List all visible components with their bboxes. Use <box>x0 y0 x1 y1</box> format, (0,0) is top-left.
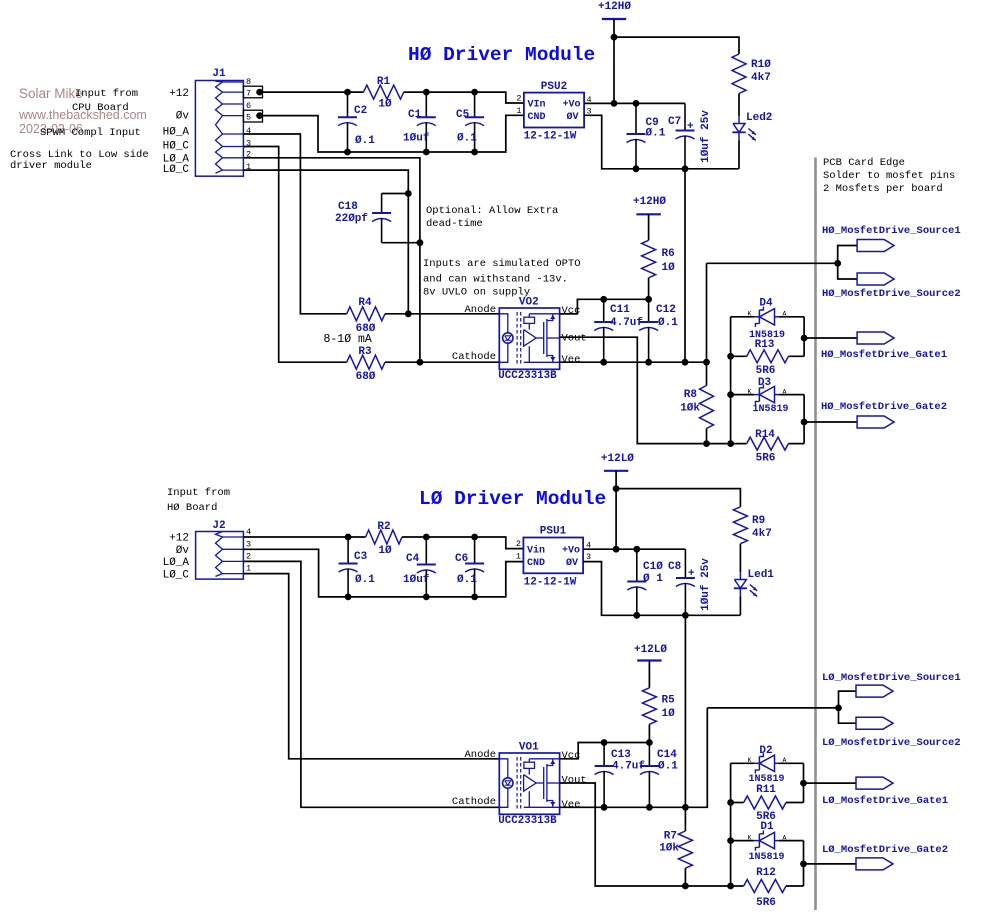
capacitor C5 <box>474 92 476 117</box>
junction C5 top <box>471 89 478 96</box>
wire +12L0 rail to R9 <box>616 489 740 507</box>
net L0_MosfetDrive_Gate1 <box>856 777 893 789</box>
junction C6 bottom <box>471 594 478 601</box>
svg-text:22Øpf: 22Øpf <box>335 213 368 225</box>
wire R5 to Vcc rail <box>648 724 650 742</box>
svg-text:C3: C3 <box>354 551 368 563</box>
wire right rail gate2 <box>803 395 805 444</box>
svg-text:VO2: VO2 <box>519 297 539 309</box>
svg-text:LØ_MosfetDrive_Gate1: LØ_MosfetDrive_Gate1 <box>822 795 948 807</box>
wire L0_A cross link from J1 pin2 <box>243 158 420 362</box>
svg-text:HØ Board: HØ Board <box>167 502 217 514</box>
svg-text:C12: C12 <box>656 304 676 316</box>
svg-text:R4: R4 <box>358 297 372 309</box>
op-amp/opto-driver VO1 UCC23313B <box>499 753 559 814</box>
resistor R12 <box>744 880 786 893</box>
svg-text:Anode: Anode <box>464 304 496 316</box>
svg-text:C8: C8 <box>668 561 682 573</box>
junction vee/C7 drop <box>682 359 689 366</box>
wire +12H0 rail to R10 <box>614 37 739 54</box>
wire R4 to opto anode <box>385 313 499 315</box>
diode D3 1N5819 <box>754 394 760 396</box>
wire right rail gate2 L0 <box>803 841 805 886</box>
capacitor C18 (dead-time) <box>382 193 409 195</box>
wire PSU2 +Vo row <box>584 102 685 104</box>
svg-text:ØV: ØV <box>566 111 578 123</box>
diode D1 1N5819 <box>754 840 760 842</box>
wire gate2 to card edge L0 <box>804 863 857 865</box>
capacitor C1 <box>425 92 427 117</box>
net H0_MosfetDrive_Gate1 <box>857 332 894 344</box>
PCB card edge line <box>814 158 817 911</box>
wire C7 bottom down to Vee rail <box>684 169 686 362</box>
svg-text:Solder to mosfet pins: Solder to mosfet pins <box>823 170 955 182</box>
wire +12H0 stem down to +Vo <box>613 37 615 103</box>
wire D1 row left stub <box>731 840 754 842</box>
net L0_MosfetDrive_Source1 <box>856 685 893 697</box>
svg-text:VIn: VIn <box>528 100 546 111</box>
svg-text:K: K <box>748 757 752 764</box>
svg-text:Ø.1: Ø.1 <box>646 128 666 140</box>
junction C3 bottom <box>345 594 352 601</box>
svg-text:4.7uf: 4.7uf <box>610 317 643 329</box>
junction +Vo at +12H0 stem <box>611 100 618 107</box>
svg-text:C6: C6 <box>455 553 468 565</box>
svg-text:1: 1 <box>516 106 521 116</box>
junction C14 bottom <box>646 804 653 811</box>
svg-text:1Ø: 1Ø <box>378 99 392 111</box>
junction C1 top <box>423 89 430 96</box>
svg-text:J1: J1 <box>212 68 226 80</box>
svg-text:C14: C14 <box>657 749 677 761</box>
wire gate network left rail <box>730 317 732 444</box>
wire +12L0 to R5 <box>648 661 650 688</box>
svg-text:HØ_MosfetDrive_Source2: HØ_MosfetDrive_Source2 <box>822 288 961 300</box>
wire C8 bottom down to Vee rail <box>684 615 686 808</box>
svg-text:LØ Driver Module: LØ Driver Module <box>419 488 606 510</box>
capacitor C4 <box>425 537 427 565</box>
wire PSU2 0V to output ground rail <box>584 115 739 169</box>
wire L0_C from J2 pin1 to opto anode <box>243 574 499 759</box>
junction gate2 <box>801 419 808 426</box>
wire H0_C from J1 pin3 to R3 <box>243 147 346 363</box>
resistor R1 <box>364 85 404 99</box>
svg-text:and can withstand -13v.: and can withstand -13v. <box>423 273 568 285</box>
junction left rail R13 <box>727 353 734 360</box>
junction C18 bottom <box>417 239 424 246</box>
junction vee/R8 <box>703 359 710 366</box>
svg-text:Led2: Led2 <box>746 112 772 124</box>
J1 pin numbers <box>246 77 251 172</box>
svg-text:Ø 1: Ø 1 <box>643 573 663 585</box>
junction gate1 L0 <box>800 780 807 787</box>
svg-text:R1: R1 <box>377 76 391 88</box>
resistor R3 <box>347 355 385 369</box>
diode D2 1N5819 <box>754 762 760 764</box>
J2 pin numbers <box>246 527 251 574</box>
svg-text:R5: R5 <box>662 695 676 707</box>
svg-text:+12: +12 <box>169 533 189 545</box>
svg-text:1: 1 <box>246 564 251 574</box>
junction C12 bottom <box>645 359 652 366</box>
wire R7 to bottom rail <box>684 868 686 886</box>
wire R12 row <box>731 885 744 887</box>
svg-text:Vee: Vee <box>562 354 581 366</box>
wire D3 row left stub <box>731 394 754 396</box>
capacitor C12 <box>648 299 650 322</box>
resistor R5 <box>642 688 656 725</box>
svg-text:Solar Mike: Solar Mike <box>19 86 83 101</box>
resistor R9 <box>733 507 747 544</box>
wire PSU1 +Vo row <box>583 548 685 550</box>
svg-text:6: 6 <box>246 101 251 111</box>
wire gate network left rail L0 <box>730 763 732 886</box>
svg-text:LØ_C: LØ_C <box>163 164 190 176</box>
svg-text:PSU2: PSU2 <box>541 81 567 93</box>
wire R10 to Led2 <box>738 94 740 117</box>
wire +12 row R1 to PSU2 VIn <box>404 92 524 103</box>
resistor R8 <box>700 386 714 429</box>
svg-text:R12: R12 <box>756 867 776 879</box>
junction C2 top <box>344 89 351 96</box>
net H0_MosfetDrive_Source2 <box>857 273 894 285</box>
svg-text:driver module: driver module <box>10 160 92 172</box>
svg-text:Vout: Vout <box>562 774 587 786</box>
connector J2 <box>196 532 244 580</box>
svg-text:Ø.1: Ø.1 <box>355 135 375 147</box>
junction bottom rail R7 <box>682 883 689 890</box>
svg-text:Vcc: Vcc <box>562 305 581 317</box>
svg-text:Vin: Vin <box>527 545 545 557</box>
resistor R10 <box>732 54 746 94</box>
wire R6 to Vcc rail <box>648 278 650 300</box>
junction left rail D1 <box>727 837 734 844</box>
junction gate1 <box>801 335 808 342</box>
svg-text:5R6: 5R6 <box>756 365 776 377</box>
wire gate1 to card edge L0 <box>804 782 857 784</box>
wire source column <box>706 263 708 385</box>
svg-text:Anode: Anode <box>464 749 496 761</box>
junction gnd / vee drop L0 <box>682 612 689 619</box>
resistor R6 <box>642 240 656 277</box>
LED Led1 <box>739 572 741 579</box>
svg-text:C7: C7 <box>668 116 681 128</box>
junction C4 top <box>423 534 430 541</box>
svg-text:Ø.1: Ø.1 <box>658 317 678 329</box>
svg-text:4: 4 <box>246 527 251 537</box>
svg-text:5R6: 5R6 <box>756 897 776 909</box>
connector J1 <box>195 81 243 177</box>
capacitor C10 <box>636 549 638 581</box>
junction C18 top <box>405 190 412 197</box>
junction C13 bottom <box>601 804 608 811</box>
wire PSU1 0V to output ground rail <box>583 562 740 616</box>
svg-text:Optional: Allow Extra: Optional: Allow Extra <box>426 205 558 217</box>
svg-text:1Øuf: 1Øuf <box>403 574 430 586</box>
J1 pin7 box <box>243 86 262 98</box>
svg-text:R6: R6 <box>662 248 675 260</box>
svg-text:HØ_C: HØ_C <box>163 141 190 153</box>
wire +12 row from J1 pin7 to R1 <box>263 91 364 93</box>
junction C10 top <box>633 546 640 553</box>
svg-text:C18: C18 <box>338 201 358 213</box>
junction C12 top <box>645 296 652 303</box>
svg-text:R2: R2 <box>377 521 390 533</box>
wire opto Vee rail L0 <box>560 708 708 807</box>
LED Led2 <box>738 116 740 123</box>
svg-text:2 Mosfets per board: 2 Mosfets per board <box>823 183 943 195</box>
svg-text:+Vo: +Vo <box>562 546 580 557</box>
svg-text:+12HØ: +12HØ <box>598 1 631 13</box>
junction C9 top <box>633 100 640 107</box>
svg-text:4k7: 4k7 <box>751 72 771 84</box>
power supply module PSU1 <box>523 538 583 574</box>
svg-text:+12LØ: +12LØ <box>634 644 667 656</box>
wire R12 to right rail <box>786 885 804 887</box>
svg-text:8-1Ø mA: 8-1Ø mA <box>324 333 372 346</box>
wire gate1 to card edge <box>804 337 857 339</box>
svg-text:LØ_MosfetDrive_Source1: LØ_MosfetDrive_Source1 <box>822 672 961 684</box>
net L0_MosfetDrive_Source2 <box>856 717 893 729</box>
junction output gnd / vee drop <box>682 165 689 172</box>
svg-text:12-12-1W: 12-12-1W <box>524 577 577 589</box>
wire right rail gate1 <box>803 317 805 357</box>
junction C4 bottom <box>423 594 430 601</box>
svg-text:D3: D3 <box>758 377 772 389</box>
svg-text:HØ_MosfetDrive_Gate1: HØ_MosfetDrive_Gate1 <box>821 349 947 361</box>
capacitor C11 <box>603 299 605 322</box>
wire 0v from J1 pin5 to rail to PSU2 GND <box>263 115 524 152</box>
svg-text:LØ_MosfetDrive_Source2: LØ_MosfetDrive_Source2 <box>822 737 961 749</box>
junction left rail D3 <box>727 391 734 398</box>
svg-text:R13: R13 <box>755 339 775 351</box>
wire gate2 to card edge <box>804 421 857 423</box>
junction left rail R11 <box>727 799 734 806</box>
svg-text:3: 3 <box>246 539 251 549</box>
wire 0v from J2 pin3 to rail to PSU1 GND <box>243 549 523 597</box>
capacitor C3 <box>347 537 349 564</box>
junction +12L0 rail <box>613 485 620 492</box>
capacitor C8 (polarized) <box>684 549 686 578</box>
svg-text:D4: D4 <box>759 298 773 310</box>
junction bottom rail gate network <box>727 440 734 447</box>
svg-text:2: 2 <box>516 539 521 549</box>
capacitor C6 <box>474 537 476 564</box>
svg-text:C5: C5 <box>456 109 470 121</box>
svg-text:+12LØ: +12LØ <box>601 453 634 465</box>
svg-text:R11: R11 <box>756 784 776 796</box>
svg-text:D2: D2 <box>759 745 772 757</box>
PSU1 pin numbers <box>516 539 591 562</box>
svg-text:+12: +12 <box>169 88 189 100</box>
resistor R7 <box>678 831 692 868</box>
wire R3 to opto cathode <box>385 361 499 363</box>
wire L0_C cross link from J1 pin1 <box>243 170 408 314</box>
junction C11 bottom <box>600 359 607 366</box>
svg-text:5R6: 5R6 <box>756 453 776 465</box>
svg-text:2: 2 <box>516 94 521 104</box>
wire R11 to right rail <box>786 802 804 804</box>
wire R11 row <box>731 802 744 804</box>
svg-text:C11: C11 <box>610 304 630 316</box>
svg-text:1Øuf 25v: 1Øuf 25v <box>700 110 712 163</box>
svg-text:Ø.1: Ø.1 <box>457 574 477 586</box>
svg-text:1Øuf: 1Øuf <box>403 133 430 145</box>
svg-text:HØ_A: HØ_A <box>163 127 190 139</box>
junction bottom rail R8 <box>703 440 710 447</box>
capacitor C2 <box>347 92 349 117</box>
svg-text:CND: CND <box>527 558 545 569</box>
svg-text:1N5819: 1N5819 <box>748 852 784 863</box>
wire D2 row left stub <box>731 762 754 764</box>
wire opto Vcc to rail <box>560 313 578 315</box>
svg-text:Øv: Øv <box>176 545 190 557</box>
wire Vcc rail <box>560 299 649 314</box>
diode D4 1N5819 <box>754 316 760 318</box>
net H0_MosfetDrive_Source1 <box>857 240 894 252</box>
svg-text:1N5819: 1N5819 <box>752 404 788 415</box>
svg-text:Led1: Led1 <box>748 569 775 581</box>
wire Vcc rail L0 <box>560 743 650 759</box>
svg-text:Ø.1: Ø.1 <box>355 574 375 586</box>
wire opto Vee rail <box>560 361 707 363</box>
svg-text:LØ_MosfetDrive_Gate2: LØ_MosfetDrive_Gate2 <box>822 844 948 856</box>
wire R13 row <box>731 355 747 357</box>
svg-text:C1Ø: C1Ø <box>643 561 663 573</box>
resistor R14 <box>747 437 789 450</box>
op-amp/opto-driver VO2 UCC23313B <box>499 308 559 369</box>
wire D4 row left stub <box>731 316 754 318</box>
capacitor C14 <box>648 743 650 767</box>
svg-text:C1: C1 <box>408 109 422 121</box>
net L0_MosfetDrive_Gate2 <box>856 858 893 870</box>
svg-text:+12HØ: +12HØ <box>633 196 666 208</box>
power symbol +12H0 (mid) <box>636 213 660 215</box>
svg-text:LØ_C: LØ_C <box>163 569 190 581</box>
wire +12 row from J2 pin4 to R2 <box>243 536 365 538</box>
wire D3 to right rail <box>779 394 804 396</box>
junction C13 top <box>601 739 608 746</box>
power supply module PSU2 <box>524 93 584 128</box>
junction anode / L0_C link <box>405 310 412 317</box>
junction source split <box>834 260 841 267</box>
wire R13 to right rail <box>788 355 804 357</box>
svg-text:PCB Card Edge: PCB Card Edge <box>823 157 905 169</box>
wire L0_A from J2 pin2 to opto cathode <box>243 561 499 807</box>
resistor R2 <box>366 530 402 544</box>
net H0_MosfetDrive_Gate2 <box>857 416 894 428</box>
svg-text:HØ Driver Module: HØ Driver Module <box>408 44 595 66</box>
svg-text:Vee: Vee <box>562 799 581 811</box>
wire source bracket <box>838 246 857 280</box>
junction vee/C8 drop <box>682 804 689 811</box>
svg-text:HØ_MosfetDrive_Source1: HØ_MosfetDrive_Source1 <box>822 225 961 237</box>
wire +12 row R2 to PSU1 VIn <box>402 537 523 549</box>
junction C10 bottom <box>633 612 640 619</box>
svg-text:VO1: VO1 <box>519 742 539 754</box>
J1 signal name labels <box>163 88 190 176</box>
svg-text:C4: C4 <box>406 553 420 565</box>
wire D4 to right rail <box>779 316 804 318</box>
wire D2 to right rail <box>779 762 804 764</box>
svg-text:+: + <box>688 568 695 580</box>
svg-text:UCC23313B: UCC23313B <box>498 370 557 382</box>
capacitor C7 (polarized) <box>684 103 686 130</box>
wire opto Vout down to gate bottom rail <box>560 337 731 443</box>
wire D1 to right rail <box>779 840 804 842</box>
power symbol +12L0 (top) <box>604 470 628 472</box>
svg-text:UCC23313B: UCC23313B <box>498 815 557 827</box>
svg-text:1Ø: 1Ø <box>378 545 392 557</box>
svg-text:Ø.1: Ø.1 <box>658 761 678 773</box>
junction +12H0 rail <box>611 34 618 41</box>
svg-text:LØ_A: LØ_A <box>163 557 190 569</box>
svg-text:Input from: Input from <box>167 487 230 499</box>
svg-text:1Øuf 25v: 1Øuf 25v <box>700 558 712 611</box>
J1 pin5 box <box>243 110 262 122</box>
resistor R11 <box>744 796 786 809</box>
wire +12L0 stem down to +Vo <box>615 489 617 550</box>
junction bottom rail gate network L0 <box>727 883 734 890</box>
J2 signal name labels <box>163 533 190 582</box>
svg-text:+: + <box>687 121 694 133</box>
svg-text:Input from: Input from <box>75 88 138 100</box>
svg-text:C2: C2 <box>354 105 367 117</box>
wire R14 to right rail <box>788 443 804 445</box>
wire mosfet source row <box>707 262 838 264</box>
svg-text:12-12-1W: 12-12-1W <box>524 131 577 143</box>
power symbol +12L0 (mid) <box>637 659 661 661</box>
svg-text:+Vo: +Vo <box>562 100 580 111</box>
wire H0_A from J1 pin4 to R4 <box>243 134 346 314</box>
svg-text:ØV: ØV <box>566 557 578 569</box>
svg-text:R3: R3 <box>358 346 372 358</box>
wire +12H0 stem to rail <box>613 19 615 37</box>
wire Led1 to 0V rail <box>739 597 741 616</box>
svg-text:3: 3 <box>586 552 591 562</box>
svg-text:SPWM Compl Input: SPWM Compl Input <box>40 127 141 139</box>
wire +12H0 to R6 <box>648 214 650 240</box>
resistor R13 <box>747 350 789 363</box>
svg-text:1Øk: 1Øk <box>659 843 679 855</box>
svg-text:CND: CND <box>528 112 546 123</box>
svg-text:C13: C13 <box>611 749 631 761</box>
svg-text:HØ_MosfetDrive_Gate2: HØ_MosfetDrive_Gate2 <box>821 401 947 413</box>
resistor R4 <box>347 307 385 321</box>
power symbol +12H0 (top) <box>602 18 626 20</box>
wire +12L0 stem to rail <box>615 471 617 489</box>
svg-text:2: 2 <box>246 551 251 561</box>
junction C5 bottom <box>471 149 478 156</box>
wire R8 to bottom rail <box>706 429 708 444</box>
junction C1 bottom <box>423 149 430 156</box>
svg-text:Cathode: Cathode <box>452 796 496 808</box>
junction C11 top <box>600 296 607 303</box>
svg-text:R8: R8 <box>684 389 698 401</box>
junction gate2 L0 <box>800 861 807 868</box>
junction J1 pin5 <box>256 112 263 119</box>
svg-text:R1Ø: R1Ø <box>751 59 771 71</box>
svg-text:Ø.1: Ø.1 <box>457 133 477 145</box>
junction source split L0 <box>835 705 842 712</box>
wire right rail gate1 L0 <box>803 763 805 802</box>
svg-text:Inputs are simulated OPTO: Inputs are simulated OPTO <box>423 258 581 270</box>
svg-text:5: 5 <box>246 112 251 122</box>
svg-text:R9: R9 <box>752 515 765 527</box>
wire vee to R7 <box>684 808 686 831</box>
svg-text:CPU Board: CPU Board <box>72 102 129 114</box>
svg-text:1Øk: 1Øk <box>680 403 700 415</box>
